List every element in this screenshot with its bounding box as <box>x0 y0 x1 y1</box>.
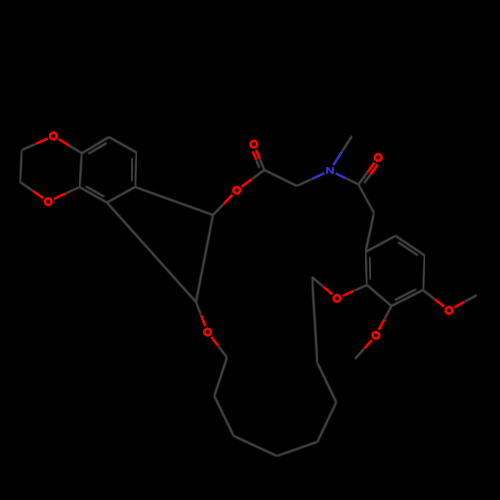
bond ringC-O10 <box>423 290 444 307</box>
aromatic bond C8a=CB1 <box>82 137 109 154</box>
loop bond <box>317 363 336 402</box>
loop bond <box>234 436 277 456</box>
bond O3-esterC <box>242 170 265 187</box>
atom label O (O9) <box>373 332 380 339</box>
bond esterC-CH2 <box>264 170 297 186</box>
atom label O (O1) <box>50 133 57 140</box>
loop bond <box>317 402 336 442</box>
chain CB4-J (long) <box>107 203 196 302</box>
chain J-CH (long) <box>196 215 213 302</box>
bond CH2-N <box>297 173 324 186</box>
atom label O (O10) <box>446 307 453 314</box>
atom label O (O2) <box>45 198 52 205</box>
aromatic bond D-C <box>423 256 425 291</box>
bond O9-CH3 <box>355 340 372 359</box>
aromatic bond F-E <box>366 236 396 252</box>
bond ringA-O8 <box>343 285 367 296</box>
loop bond <box>214 396 233 436</box>
bond CH2-O2 (dioxane) <box>20 182 43 198</box>
aromatic bond B-A <box>367 285 392 306</box>
loop bond <box>214 358 227 397</box>
ester C=O <box>253 150 265 170</box>
bond O10-CH3 <box>454 295 477 307</box>
atom label N (N) <box>327 167 333 174</box>
atom label O (O6) <box>375 154 382 161</box>
bond O1-C8a <box>59 139 82 153</box>
aromatic bond A=F <box>366 252 371 285</box>
bond O8-CH2 <box>312 277 332 294</box>
bond O2-C4a <box>54 187 80 199</box>
aromatic bond CB1-CB2 <box>109 137 137 153</box>
atom label O (O7) <box>204 329 211 336</box>
aromatic bond C=B <box>392 289 424 306</box>
aromatic bond CB2=CB3 <box>132 153 137 187</box>
atom label O (O4) <box>251 141 257 148</box>
chain CH2O8-W1 (long) <box>312 277 317 363</box>
bond O7-J <box>196 302 205 326</box>
loop bond <box>277 442 317 456</box>
atom label O (O3) <box>233 187 240 194</box>
bond CH2-CH2 (dioxane) <box>20 150 22 182</box>
bond ringB-O9 <box>379 306 392 330</box>
aromatic bond E=D <box>396 236 425 256</box>
amide C=O <box>359 163 378 185</box>
bond CH-O3 <box>213 195 232 215</box>
aromatic bond CB3-CB4 <box>107 187 135 203</box>
bond N-amideC <box>336 173 359 184</box>
bond N-CH3 <box>333 136 352 165</box>
bond Cdn-O7 <box>211 337 227 358</box>
aromatic bond C4a-C8a <box>79 153 82 187</box>
bond amideC-CH2ar <box>359 185 375 214</box>
bond CH2ar-ringF <box>366 213 375 252</box>
aromatic bond CB4=C4a <box>79 186 107 202</box>
chain CB3-CH (long) <box>135 187 213 215</box>
atom label O (O8) <box>334 295 341 302</box>
bond O1-CH2 (dioxane) <box>22 139 48 151</box>
